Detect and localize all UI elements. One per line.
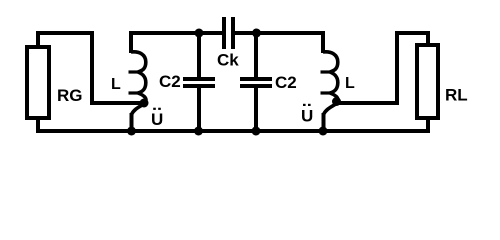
capacitor C2 right plates [240, 79, 272, 86]
svg-text:C2: C2 [159, 72, 181, 91]
svg-text:L: L [345, 75, 355, 92]
node dot bottom rail / right coil [319, 127, 328, 136]
svg-text:U: U [301, 107, 313, 126]
wire top rail right [232, 31, 325, 35]
node dot bottom rail / C2 left [194, 127, 203, 136]
wire bottom rail [36, 129, 430, 133]
wire right coil bottom lead [322, 113, 326, 131]
wire right coil top lead [321, 33, 325, 53]
node dot right coil tap [332, 97, 341, 106]
wire RL tap loop [338, 33, 428, 103]
svg-text:U: U [151, 110, 163, 129]
capacitor Ck plates [224, 17, 233, 49]
wire RG bottom stub [36, 117, 40, 131]
node dot bottom rail / C2 right [252, 127, 261, 136]
wire RG top stub [38, 33, 142, 103]
node dot top rail / C2 left [195, 29, 204, 38]
inductor L1 (left coil) [129, 52, 147, 115]
node dot left coil tap [140, 99, 149, 108]
wire left C2 top lead [197, 33, 201, 77]
wire left C2 bottom lead [197, 88, 201, 131]
svg-text:RG: RG [57, 86, 83, 105]
resistor RL [417, 45, 438, 118]
svg-text:L: L [111, 76, 121, 93]
wire right C2 top lead [254, 33, 258, 77]
wire left coil top lead [129, 33, 133, 53]
inductor L2 (right coil) [321, 52, 339, 115]
capacitor C2 left plates [183, 79, 215, 86]
wire top rail left [129, 31, 223, 35]
node dot top rail / C2 right [252, 29, 261, 38]
node dot bottom rail / left coil [127, 127, 136, 136]
resistor RG [27, 47, 49, 118]
wire right C2 bottom lead [254, 88, 258, 131]
wire left coil bottom lead [130, 113, 134, 131]
wire RL bottom stub [426, 117, 430, 131]
svg-text:RL: RL [445, 86, 468, 105]
svg-text:C2: C2 [275, 73, 297, 92]
svg-text:Ck: Ck [217, 51, 239, 70]
